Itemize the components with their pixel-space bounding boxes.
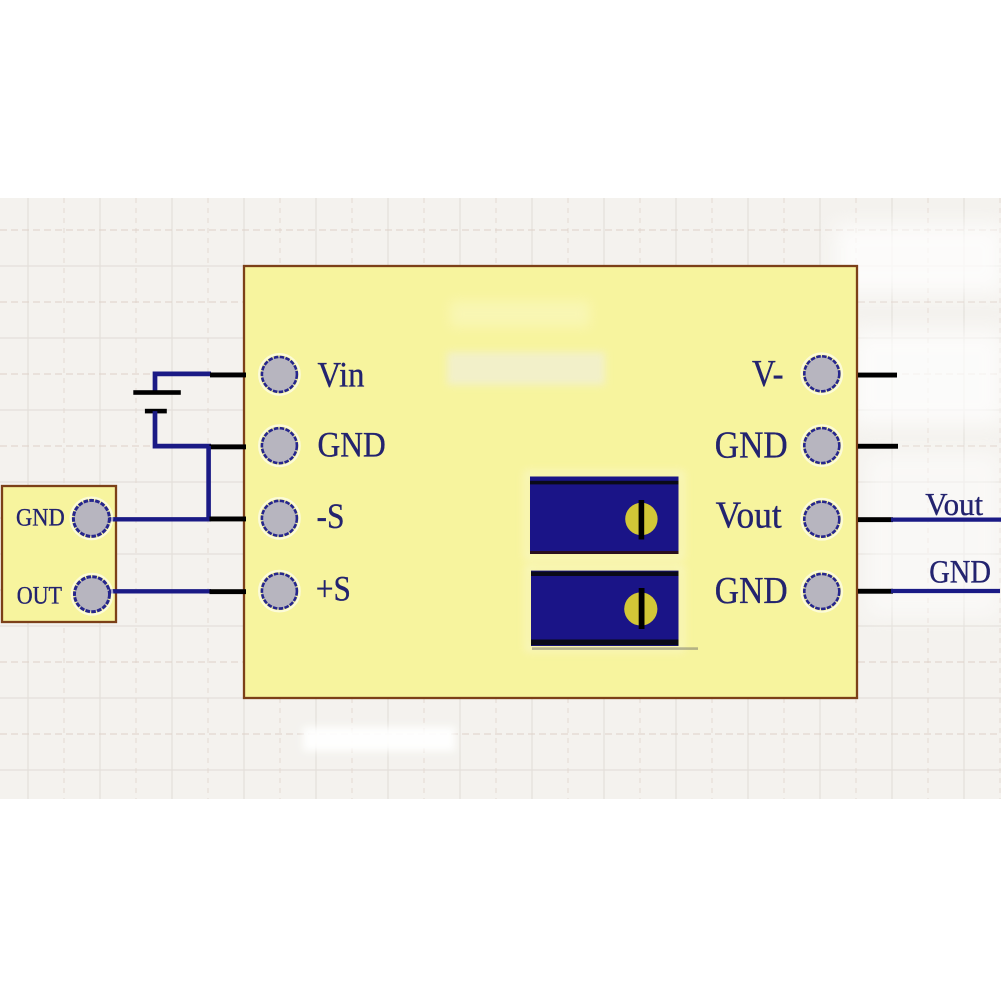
pin connector OUT bbox=[72, 574, 113, 615]
wire +S from connector OUT bbox=[108, 589, 211, 593]
svg-text:GND: GND bbox=[715, 424, 788, 466]
pin Vin bbox=[259, 354, 300, 395]
wire Vin black stub bbox=[210, 373, 246, 378]
svg-text:GND: GND bbox=[318, 425, 386, 465]
battery B1 positive wire bbox=[155, 374, 211, 393]
pin GND right bottom bbox=[802, 571, 843, 612]
svg-text:GND: GND bbox=[929, 554, 991, 590]
background white washes (erased watermark areas) bbox=[303, 224, 1001, 751]
wire bottom GND black stub bbox=[858, 589, 893, 594]
wire GND black stub bbox=[210, 444, 247, 449]
pin -S bbox=[259, 498, 300, 539]
wire bottom GND navy line bbox=[891, 589, 1000, 593]
svg-text:Vout: Vout bbox=[716, 494, 783, 536]
solid grid verticals bbox=[28, 198, 964, 799]
wire Vout black stub bbox=[858, 517, 893, 522]
grid paper band bbox=[0, 198, 1001, 799]
wire +S black stub bbox=[210, 589, 247, 594]
svg-text:+S: +S bbox=[316, 569, 351, 609]
svg-text:-S: -S bbox=[317, 496, 345, 536]
dashed grid verticals bbox=[64, 198, 1000, 799]
pin Vout bbox=[802, 499, 843, 540]
battery B1 negative plate bbox=[145, 409, 167, 414]
wire -S from connector GND bbox=[108, 517, 211, 521]
trimmer RV2 body bbox=[528, 568, 698, 650]
trimmer RV1 screw bbox=[625, 500, 657, 540]
svg-text:GND: GND bbox=[16, 503, 65, 532]
battery B1 negative wire bbox=[155, 411, 211, 446]
module U1 body bbox=[244, 266, 857, 698]
connector J1 body bbox=[2, 486, 116, 622]
wire V- black stub bbox=[858, 373, 897, 378]
wire Vout navy line bbox=[891, 517, 1001, 521]
battery B1 positive plate bbox=[133, 390, 181, 395]
erased watermark smudge inside module bbox=[447, 301, 605, 385]
svg-text:Vout: Vout bbox=[925, 487, 983, 522]
wire -S black stub bbox=[210, 517, 247, 522]
pin GND right top bbox=[802, 425, 843, 466]
wire GND to -S vertical bbox=[206, 446, 211, 519]
svg-text:Vin: Vin bbox=[318, 354, 365, 394]
solid grid horizontals bbox=[0, 266, 1001, 770]
trimmer RV2 screw bbox=[624, 588, 657, 629]
svg-text:V-: V- bbox=[752, 353, 784, 395]
pin +S bbox=[259, 571, 300, 612]
pin connector GND bbox=[71, 498, 113, 540]
svg-text:GND: GND bbox=[715, 570, 788, 612]
svg-text:OUT: OUT bbox=[17, 580, 63, 609]
dashed grid horizontals bbox=[0, 230, 1001, 734]
wire right GND black stub bbox=[858, 444, 898, 449]
pin GND left bbox=[259, 425, 300, 466]
pin V- bbox=[802, 354, 843, 395]
trimmer RV1 body bbox=[527, 474, 682, 558]
